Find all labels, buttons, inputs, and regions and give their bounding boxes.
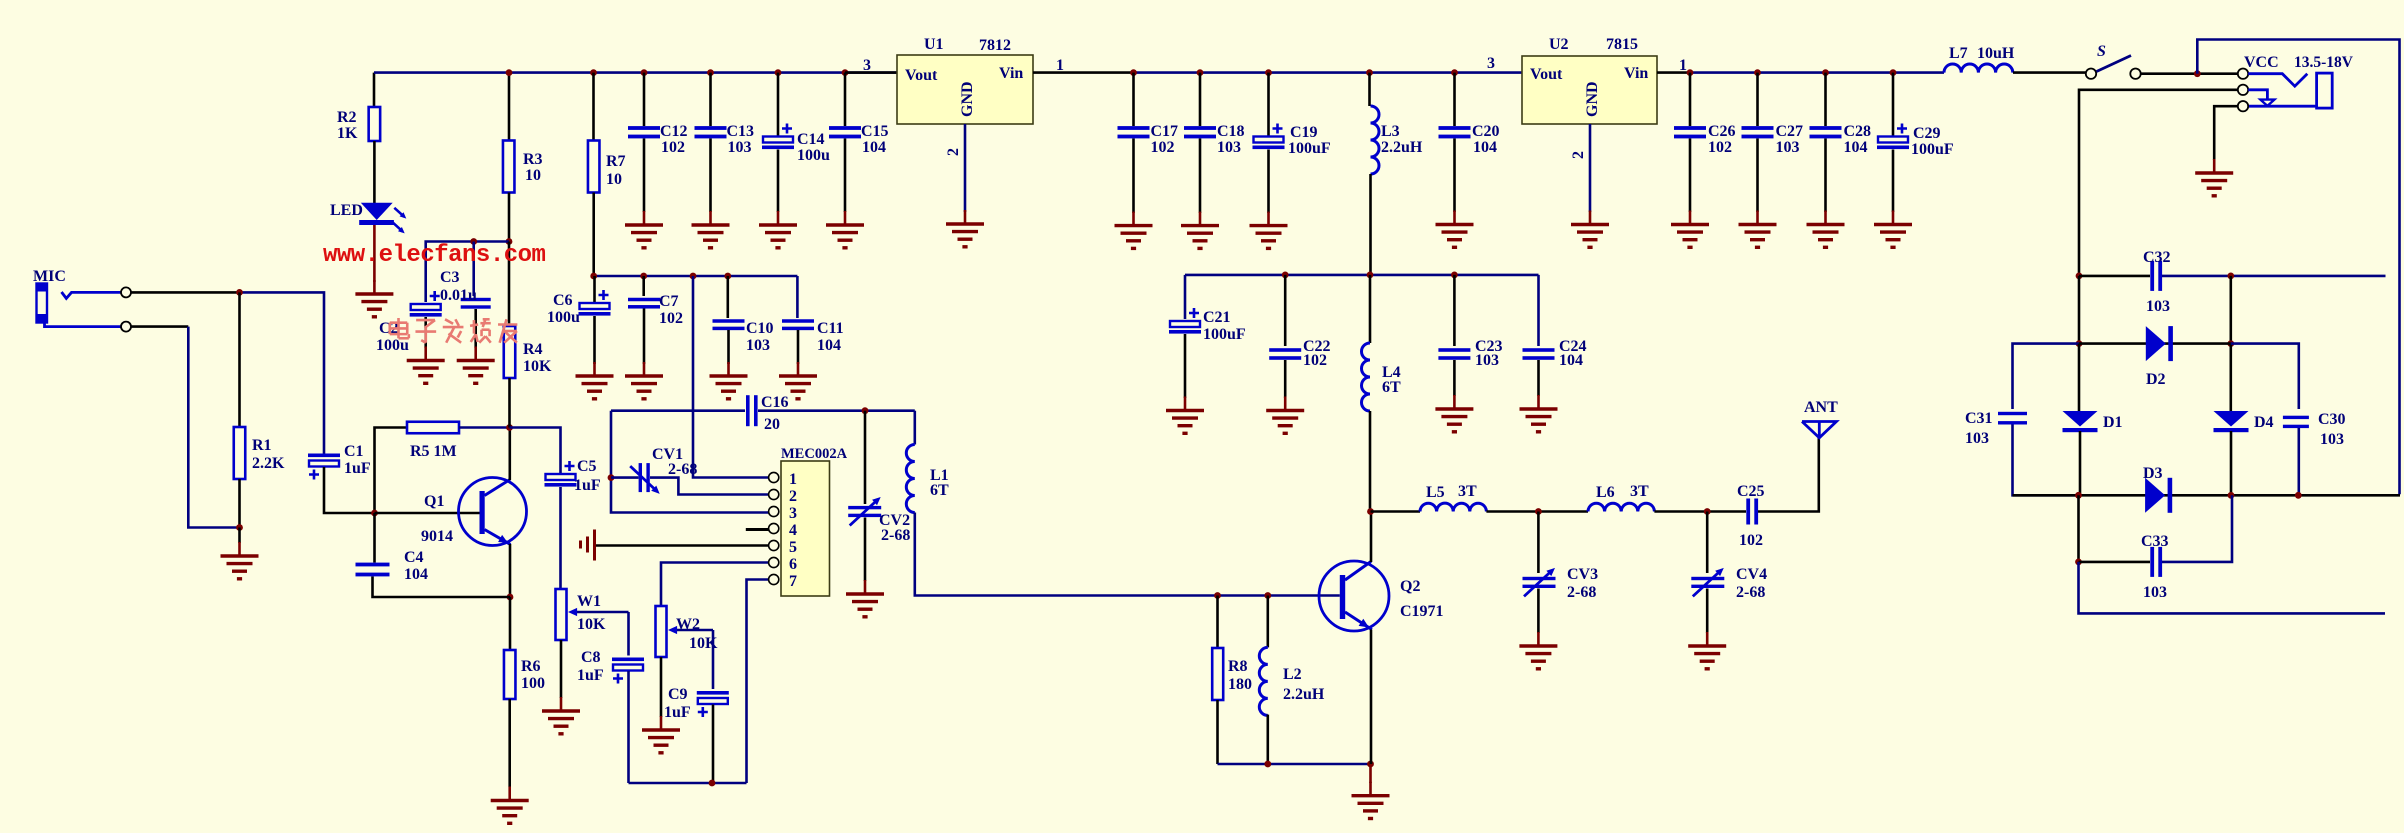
wire LED to ground <box>373 225 376 282</box>
power jack tip contact <box>2248 74 2307 87</box>
capacitor C14 <box>762 124 794 150</box>
node CV4 <box>1704 508 1711 515</box>
ground C12 <box>625 211 663 248</box>
svg-text:D1: D1 <box>2103 414 2123 431</box>
svg-text:C9: C9 <box>668 686 688 703</box>
svg-text:1: 1 <box>1056 57 1064 74</box>
wire C21 branch <box>1184 275 1187 319</box>
svg-text:U1: U1 <box>924 36 944 53</box>
wire C3 feed <box>472 242 475 297</box>
svg-text:2: 2 <box>1570 151 1587 159</box>
node emitter rail <box>1367 761 1374 768</box>
ground C19 <box>1250 212 1288 249</box>
wire W1 wiper down <box>627 612 630 656</box>
wire C24 branch <box>1537 275 1540 346</box>
svg-text:20: 20 <box>764 416 780 433</box>
wire C14 top <box>777 73 780 136</box>
watermark cjk glyph 3 <box>443 319 464 342</box>
wire Q2 emitter ground stub <box>1369 764 1372 783</box>
wire emitter rail <box>1218 763 1371 766</box>
wire C8 bottom <box>627 671 630 783</box>
wire Q1 emitter down <box>509 544 512 597</box>
node D3 left <box>2075 492 2082 499</box>
wire pin6 to W2 <box>661 563 769 607</box>
wire C33 row right <box>2162 495 2232 562</box>
svg-text:Q2: Q2 <box>1400 578 1420 595</box>
svg-text:2.2uH: 2.2uH <box>1381 139 1423 156</box>
wire C17 bottom <box>1132 139 1135 214</box>
svg-text:6: 6 <box>789 556 797 573</box>
wire R5 right <box>459 426 510 429</box>
wire C4 bottom <box>373 577 511 598</box>
inductor L2 <box>1259 647 1268 715</box>
svg-text:C18: C18 <box>1217 123 1245 140</box>
wire C29 bottom <box>1892 150 1895 213</box>
diode D4 <box>2214 411 2249 432</box>
svg-text:7: 7 <box>789 573 797 590</box>
watermark cjk glyph 1 <box>390 318 409 338</box>
wire C27 bottom <box>1756 139 1759 213</box>
svg-text:3: 3 <box>1487 55 1495 72</box>
wire C7 bottom <box>643 309 646 365</box>
capacitor C22 <box>1269 348 1301 360</box>
capacitor C12 <box>628 126 660 138</box>
ground CV2 <box>846 580 884 617</box>
node C32 right <box>2227 273 2234 280</box>
power jack ring contact <box>2248 90 2267 99</box>
capacitor C30 <box>2283 416 2309 428</box>
wire R1 bottom <box>238 479 241 528</box>
wire Q1 base <box>375 512 480 515</box>
svg-text:1uF: 1uF <box>664 704 691 721</box>
svg-text:9014: 9014 <box>421 528 453 545</box>
svg-text:D4: D4 <box>2254 414 2274 431</box>
svg-text:C25: C25 <box>1737 483 1765 500</box>
svg-text:1: 1 <box>1679 57 1687 74</box>
wire C18 top <box>1199 73 1202 126</box>
svg-text:103: 103 <box>2320 431 2344 448</box>
svg-text:L5: L5 <box>1426 484 1445 501</box>
svg-text:100uF: 100uF <box>1911 141 1954 158</box>
wire CV4 bottom <box>1706 589 1709 634</box>
wire C25 to ANT <box>1758 438 1819 512</box>
capacitor C21 <box>1169 308 1201 334</box>
wire vcc node up over <box>2197 40 2399 495</box>
svg-text:103: 103 <box>2146 298 2170 315</box>
wire C18 bottom <box>1199 139 1202 214</box>
pin circle 1 <box>769 472 779 482</box>
wire node to C5 <box>510 428 561 475</box>
resistor R2 <box>369 107 381 141</box>
wire U2 Vin out <box>1657 71 1690 74</box>
svg-text:C17: C17 <box>1151 123 1179 140</box>
wire C12 top <box>643 73 646 126</box>
wire C23 top <box>1453 275 1456 346</box>
wire rail U1-U2 <box>1134 71 1523 74</box>
wire L1 top <box>913 411 916 445</box>
wire C3 to ground <box>474 309 477 348</box>
inductor L1 <box>906 445 915 513</box>
svg-text:6T: 6T <box>930 482 949 499</box>
wire MIC tip to node <box>131 291 240 294</box>
ground W1 <box>542 697 580 734</box>
svg-text:102: 102 <box>1708 139 1732 156</box>
svg-text:1uF: 1uF <box>577 667 604 684</box>
ground C14 <box>759 211 797 248</box>
svg-text:1: 1 <box>789 471 797 488</box>
svg-text:R4: R4 <box>523 341 543 358</box>
svg-text:C26: C26 <box>1708 123 1736 140</box>
transistor Q2 <box>1319 561 1389 631</box>
wire D2 row <box>2079 342 2231 345</box>
wire C10 bottom <box>727 330 730 364</box>
svg-text:LED: LED <box>330 202 363 219</box>
wire D3 row <box>2013 494 2401 497</box>
wire C22 top <box>1284 275 1287 346</box>
inductor L6 <box>1588 503 1654 511</box>
node emitter junction <box>507 594 514 601</box>
wire C16 bus left <box>611 409 745 412</box>
resistor R4 <box>504 326 516 378</box>
ground Q2 <box>1352 782 1390 819</box>
wire C15 bottom <box>844 139 847 213</box>
diode D2 <box>2146 326 2173 361</box>
capacitor C5 <box>545 461 577 487</box>
svg-text:C32: C32 <box>2143 249 2171 266</box>
svg-text:2-68: 2-68 <box>1736 584 1765 601</box>
svg-text:R2: R2 <box>337 109 357 126</box>
wire pin7 riser <box>747 580 769 784</box>
capacitor C27 <box>1742 126 1774 138</box>
wire main top rail <box>374 71 897 74</box>
ground C6 <box>576 362 614 399</box>
node C3 junction <box>470 238 477 245</box>
svg-text:10: 10 <box>525 167 541 184</box>
svg-text:103: 103 <box>1475 352 1499 369</box>
inductor L7 <box>1944 64 2013 73</box>
svg-text:10: 10 <box>606 171 622 188</box>
wire C17 top <box>1132 73 1135 126</box>
wire C13 top <box>709 73 712 126</box>
wire L1 bottom to Q2 base <box>915 513 1340 596</box>
svg-text:2: 2 <box>945 148 962 156</box>
wire L6 to C25 <box>1654 510 1746 513</box>
svg-text:103: 103 <box>1776 139 1800 156</box>
wire C32 to D2 row <box>2230 276 2233 344</box>
connector MIC jack symbol <box>37 284 122 327</box>
svg-text:4: 4 <box>789 522 797 539</box>
ground R6 <box>491 787 529 824</box>
wire C15 top <box>844 73 847 126</box>
wire pin4 stub <box>746 528 769 531</box>
capacitor C6 <box>579 290 611 316</box>
svg-text:VCC: VCC <box>2244 54 2279 71</box>
wire C9 bottom <box>712 705 715 784</box>
capacitor C10 <box>713 319 745 330</box>
diode D3 <box>2145 478 2172 513</box>
svg-text:C7: C7 <box>659 293 679 310</box>
wire D1 to C33 row <box>2077 495 2080 562</box>
svg-text:Vin: Vin <box>1624 65 1648 82</box>
wire switch to vcc node <box>2141 72 2238 75</box>
capacitor C2 <box>410 291 442 317</box>
wire C29 top <box>1892 73 1895 136</box>
wire U2 gnd pin <box>1589 124 1592 212</box>
svg-text:MIC: MIC <box>33 268 66 285</box>
svg-text:C19: C19 <box>1290 124 1318 141</box>
wire bottom out <box>2079 562 2386 614</box>
svg-text:R1: R1 <box>252 437 272 454</box>
power jack sleeve barrel <box>2317 73 2333 108</box>
svg-text:C30: C30 <box>2318 411 2346 428</box>
svg-text:C14: C14 <box>797 131 825 148</box>
antenna ANT <box>1802 422 1836 438</box>
ground C11 <box>779 362 817 399</box>
pin circle 7 <box>769 574 779 584</box>
capacitor C7 <box>628 298 660 309</box>
wire rail left end down to R2 <box>373 73 376 107</box>
ground C7 <box>625 362 663 399</box>
ground C28 <box>1807 211 1845 248</box>
pin circle 3 <box>769 506 779 516</box>
switch S pole <box>2086 69 2096 79</box>
wire C23 bottom <box>1453 360 1456 396</box>
svg-text:102: 102 <box>1303 352 1327 369</box>
capacitor C15 <box>829 126 861 138</box>
ground vcc jack <box>2195 159 2233 196</box>
node D3 right <box>2295 492 2302 499</box>
LED diode symbol <box>359 203 406 234</box>
node bus C6 <box>590 273 597 280</box>
resistor R7 <box>588 141 600 193</box>
capacitor C26 <box>1674 126 1706 138</box>
wire C26 bottom <box>1689 139 1692 213</box>
wire C30 bottom <box>2298 428 2301 495</box>
wire R4 bottom <box>508 378 511 428</box>
node rail C20 <box>1451 69 1458 76</box>
wire Q2 emitter <box>1370 630 1373 765</box>
node C16 junction <box>862 407 869 414</box>
svg-text:1uF: 1uF <box>574 477 601 494</box>
svg-text:C3: C3 <box>440 269 460 286</box>
wire C27 top <box>1756 73 1759 126</box>
svg-text:CV4: CV4 <box>1736 566 1767 583</box>
wire R6 bottom <box>508 699 511 787</box>
svg-text:L7: L7 <box>1949 45 1968 62</box>
svg-text:103: 103 <box>2143 584 2167 601</box>
svg-text:103: 103 <box>728 139 752 156</box>
svg-text:2-68: 2-68 <box>668 461 697 478</box>
wire W2 bottom <box>660 657 663 717</box>
ic U1 7812 box <box>897 55 1033 124</box>
capacitor C1 <box>308 454 340 480</box>
wire U1 gnd pin <box>964 124 967 212</box>
node vcc junction <box>2194 70 2201 77</box>
svg-text:Vout: Vout <box>1530 66 1563 83</box>
node rail L3 <box>1366 69 1373 76</box>
resistor R3 <box>503 141 515 193</box>
capacitor C29 <box>1877 124 1909 150</box>
svg-text:www.elecfans.com: www.elecfans.com <box>323 242 546 269</box>
node base L2 <box>1264 592 1271 599</box>
MIC terminal 1 <box>121 287 131 297</box>
wire C6 bottom <box>593 316 596 364</box>
svg-text:R3: R3 <box>523 151 543 168</box>
svg-text:3T: 3T <box>1458 483 1477 500</box>
wire C21 bottom <box>1184 334 1187 398</box>
wire D1 top <box>2078 344 2081 411</box>
wire C31 bottom <box>2013 425 2079 496</box>
node collector L5 <box>1367 508 1374 515</box>
node base R8 <box>1214 592 1221 599</box>
wire C15 to U1 <box>845 71 897 74</box>
wire C10 top <box>726 276 729 318</box>
transistor Q1 <box>459 478 527 546</box>
wire mid rail <box>1185 274 1539 277</box>
pin circle 6 <box>769 557 779 567</box>
wire C6 top <box>593 276 596 303</box>
svg-text:C10: C10 <box>746 320 774 337</box>
wire CV1 to pin2 <box>650 478 769 495</box>
svg-text:C6: C6 <box>553 292 573 309</box>
pin circle 4 <box>769 523 779 533</box>
svg-text:0.01u: 0.01u <box>440 287 477 304</box>
wire rail to R3 <box>508 73 511 141</box>
ground C10 <box>710 362 748 399</box>
diode D1 <box>2063 411 2098 432</box>
svg-text:C27: C27 <box>1776 123 1804 140</box>
svg-text:L2: L2 <box>1283 666 1302 683</box>
svg-text:ANT: ANT <box>1804 399 1838 416</box>
wire C5 to W1 <box>559 487 562 589</box>
node rail C19 <box>1265 69 1272 76</box>
svg-text:104: 104 <box>1559 352 1583 369</box>
svg-text:MEC002A: MEC002A <box>781 446 848 462</box>
capacitor C25 <box>1746 499 1758 525</box>
node rail C26 <box>1687 69 1694 76</box>
node Q1 base junction <box>371 510 378 517</box>
capacitor C4 <box>356 563 390 577</box>
ground U1 <box>946 210 984 247</box>
wire L4 bottom <box>1369 411 1372 512</box>
wire R8 top <box>1216 596 1219 649</box>
svg-text:CV3: CV3 <box>1567 566 1598 583</box>
ground CV4 <box>1688 632 1726 669</box>
svg-text:C1: C1 <box>344 443 364 460</box>
switch S blade <box>2097 56 2132 72</box>
capacitor C20 <box>1439 126 1471 138</box>
svg-text:10K: 10K <box>523 358 552 375</box>
wire C6 bus <box>594 275 798 278</box>
svg-text:104: 104 <box>862 139 886 156</box>
wire D4 bottom <box>2230 431 2233 495</box>
svg-text:R6: R6 <box>521 658 541 675</box>
node rail C27 <box>1754 69 1761 76</box>
wire C1 bottom to base node <box>324 467 374 513</box>
node R1 bottom junction <box>236 524 243 531</box>
node bus pin1 feed <box>690 273 697 280</box>
svg-text:C13: C13 <box>727 123 755 140</box>
ground C2 <box>407 347 445 384</box>
wire C31 branch <box>2013 344 2080 409</box>
wire C14 bottom <box>777 150 780 213</box>
svg-text:180: 180 <box>1228 676 1252 693</box>
wire L3 bottom <box>1369 174 1372 275</box>
pin circle 2 <box>769 489 779 499</box>
svg-text:1uF: 1uF <box>344 460 371 477</box>
wire C26 top <box>1689 73 1692 126</box>
svg-text:2-68: 2-68 <box>881 527 910 544</box>
wire to L5 <box>1371 510 1421 513</box>
ground W2 <box>642 716 680 753</box>
wire R1 to ground <box>238 528 241 544</box>
svg-text:C28: C28 <box>1844 123 1872 140</box>
wire Q1 collector up <box>508 428 511 481</box>
resistor R5 <box>407 422 459 434</box>
capacitor C8 <box>612 658 644 684</box>
watermark cjk glyph 4 <box>470 319 491 342</box>
svg-text:100uF: 100uF <box>1203 326 1246 343</box>
svg-text:7812: 7812 <box>979 37 1011 54</box>
svg-text:W1: W1 <box>577 593 601 610</box>
svg-text:100: 100 <box>521 675 545 692</box>
svg-text:Vout: Vout <box>905 67 938 84</box>
svg-text:103: 103 <box>746 337 770 354</box>
svg-text:GND: GND <box>959 81 976 117</box>
wire U1 Vin out <box>1033 71 1134 74</box>
power jack sleeve wire <box>2249 105 2317 108</box>
svg-text:D2: D2 <box>2146 371 2166 388</box>
svg-text:C11: C11 <box>817 320 844 337</box>
wire MIC sleeve down-right <box>188 327 239 528</box>
node rail C17 <box>1130 69 1137 76</box>
node CV1 junction <box>608 474 615 481</box>
node rail C14 <box>775 69 782 76</box>
pin circle 5 <box>769 540 779 550</box>
wire C2C3 bus <box>426 242 509 303</box>
svg-text:L3: L3 <box>1381 123 1400 140</box>
variable capacitor CV3 <box>1523 568 1556 597</box>
node mid C23 <box>1451 272 1458 279</box>
svg-text:5: 5 <box>789 539 797 556</box>
wire R8 bottom <box>1216 700 1219 764</box>
capacitor C13 <box>695 126 727 138</box>
ground C22 <box>1266 397 1304 434</box>
wire R5 left <box>375 428 408 514</box>
svg-text:102: 102 <box>661 139 685 156</box>
wire L2 top <box>1267 596 1270 648</box>
node CV3 <box>1535 508 1542 515</box>
svg-text:C15: C15 <box>861 123 889 140</box>
ground C23 <box>1435 395 1473 432</box>
capacitor C3 <box>461 298 491 309</box>
svg-text:C21: C21 <box>1203 309 1231 326</box>
svg-text:2.2uH: 2.2uH <box>1283 686 1325 703</box>
connector jack pin2 <box>2238 85 2248 95</box>
capacitor C9 <box>697 691 729 717</box>
node C9 bottom junction <box>709 780 716 787</box>
svg-text:2-68: 2-68 <box>1567 584 1596 601</box>
wire C11 bottom <box>797 330 800 364</box>
capacitor C19 <box>1253 124 1285 150</box>
ground C27 <box>1739 211 1777 248</box>
svg-text:100uF: 100uF <box>1288 140 1331 157</box>
svg-text:C4: C4 <box>404 549 424 566</box>
node mic junction <box>236 289 243 296</box>
wire CV1 left <box>611 476 639 479</box>
potentiometer W2 <box>656 606 667 657</box>
variable capacitor CV4 <box>1691 568 1724 597</box>
